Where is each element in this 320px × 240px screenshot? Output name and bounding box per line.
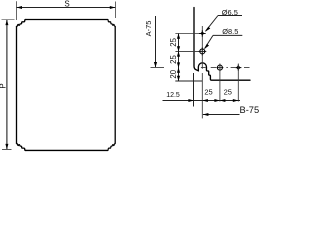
arrowhead right-pointing at col 3	[233, 99, 239, 102]
mounting plate outline (left figure)	[17, 20, 116, 151]
chain arrowhead up at row 2	[177, 51, 180, 56]
chain arrowhead down at row 2	[177, 46, 180, 51]
arrowhead B-75	[203, 113, 209, 116]
chain bottom tick	[175, 80, 202, 82]
centreline vertical through first hole column	[201, 26, 203, 118]
callout dia 8.5 leader line	[205, 35, 213, 48]
extension tick bottom of dimension P	[2, 149, 12, 151]
arrowhead right-pointing at col 2	[214, 99, 220, 102]
svg-text:A-75: A-75	[144, 21, 153, 37]
extension line right of dimension S	[115, 2, 117, 19]
chain arrowhead down at bottom tick	[177, 76, 180, 81]
chain arrowhead up at row 1	[177, 34, 180, 39]
dimension A-75 leader line	[155, 16, 157, 67]
extension line left of dimension S	[16, 1, 18, 20]
centreline horizontal through bottom hole row (dash-dot)	[151, 67, 250, 69]
dimension line P	[6, 20, 8, 149]
centreline vertical col 3	[237, 64, 239, 102]
dimension B-75 line	[203, 114, 240, 116]
svg-text:25: 25	[169, 55, 178, 64]
callout dia 6.5 arrowhead	[205, 27, 210, 32]
arrowhead P bottom	[5, 144, 8, 150]
svg-text:P: P	[0, 83, 7, 88]
extension tick top of dimension P	[2, 19, 15, 21]
hole H4 diamond mark (bottom row)	[235, 65, 241, 71]
hole H2 circle mark (8.5 dia)	[198, 47, 206, 55]
dimension line S	[17, 7, 116, 9]
bottom dimension line (12.5 / 25 / 25)	[163, 100, 241, 102]
callout dia 6.5 leader line	[206, 16, 218, 32]
centreline hole row 1	[175, 33, 205, 35]
svg-text:Ø8.5: Ø8.5	[222, 27, 238, 36]
arrowhead left-pointing at col 2	[220, 99, 226, 102]
svg-text:B-75: B-75	[240, 105, 260, 115]
vertical chain dimension line	[178, 34, 180, 82]
callout dia 6.5 shelf line	[218, 15, 242, 17]
hole H3 circle mark (bottom row)	[216, 64, 223, 71]
extension line of detail plate left edge	[193, 73, 195, 107]
svg-text:12.5: 12.5	[166, 92, 180, 99]
centreline hole row 2	[175, 50, 206, 52]
chain arrowhead down at row 3	[177, 62, 180, 67]
svg-text:20: 20	[169, 69, 178, 78]
callout dia 8.5 arrowhead	[204, 44, 209, 49]
svg-text:25: 25	[169, 37, 178, 46]
svg-text:S: S	[64, 0, 69, 8]
arrowhead A-75	[154, 62, 157, 67]
centreline vertical col 2	[219, 64, 221, 102]
arrowhead P top	[5, 20, 8, 26]
svg-text:25: 25	[224, 88, 232, 97]
chain arrowhead up at row 3	[177, 68, 180, 73]
callout dia 8.5 shelf line	[213, 34, 242, 36]
svg-text:25: 25	[204, 88, 212, 97]
hole H1 diamond mark (6.5 dia)	[199, 30, 206, 37]
arrowhead left-pointing at col 1	[202, 99, 208, 102]
arrowhead 12.5 right-pointing at plate edge	[188, 99, 194, 102]
arrowhead S right	[110, 6, 116, 9]
corner detail plate edge with keyhole slot and stepped corner (right figure)	[194, 8, 250, 81]
arrowhead S left	[17, 6, 23, 9]
